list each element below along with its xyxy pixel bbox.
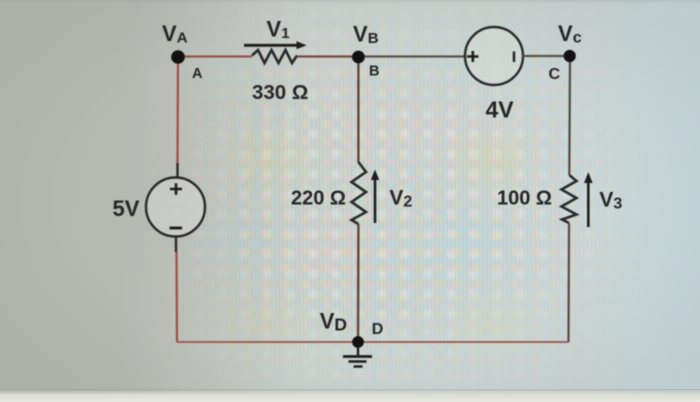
wire: node A to 330ohm left lead bbox=[178, 55, 252, 57]
svg-text:B: B bbox=[369, 64, 379, 80]
svg-text:Vc: Vc bbox=[558, 21, 582, 47]
wire: node B down to 220ohm bbox=[357, 57, 359, 162]
minus sign of 5V source bbox=[170, 227, 183, 230]
voltage source V 5V bbox=[146, 178, 205, 237]
arrow V3 (voltage arrow beside R3) bbox=[584, 172, 593, 227]
svg-text:V1: V1 bbox=[267, 17, 290, 43]
wire: node B to 4V source bbox=[358, 55, 465, 57]
svg-text:V3: V3 bbox=[599, 189, 622, 213]
resistor R1 330ohm bbox=[252, 50, 297, 63]
minus sign of 4V source bbox=[513, 52, 515, 63]
svg-text:A: A bbox=[192, 66, 203, 82]
node A bbox=[171, 50, 185, 64]
plus sign of 5V source bbox=[170, 183, 182, 195]
svg-text:4V: 4V bbox=[486, 97, 515, 123]
svg-text:5V: 5V bbox=[113, 196, 140, 221]
wire: 5V source down to bottom left corner bbox=[175, 252, 178, 342]
voltage source U1 4V bbox=[465, 27, 523, 85]
wire: bottom from node D to left corner bbox=[177, 341, 358, 343]
wire: 330ohm right lead to node B bbox=[297, 55, 358, 57]
svg-text:220 Ω: 220 Ω bbox=[291, 188, 346, 210]
wire: black stub above 5V source bbox=[176, 163, 178, 178]
wire: node C down to 100ohm bbox=[568, 56, 571, 175]
wire: 4V source to node C bbox=[523, 55, 570, 57]
wire: bottom from right corner to node D bbox=[358, 341, 569, 343]
ground bbox=[343, 347, 372, 367]
svg-text:V2: V2 bbox=[389, 187, 412, 211]
resistor R2 220ohm bbox=[352, 162, 367, 224]
node B bbox=[352, 51, 365, 64]
wire: 220ohm down to node D bbox=[357, 224, 360, 342]
svg-text:330 Ω: 330 Ω bbox=[252, 81, 308, 104]
svg-text:VA: VA bbox=[162, 21, 188, 47]
plus sign of 4V source bbox=[467, 51, 479, 62]
wire: node A down to 5V source bbox=[176, 57, 179, 163]
svg-text:D: D bbox=[372, 321, 384, 338]
node C bbox=[564, 50, 576, 62]
arrow V1 (voltage arrow over R1) bbox=[244, 41, 307, 49]
node D bbox=[352, 336, 364, 348]
svg-text:100 Ω: 100 Ω bbox=[497, 188, 552, 210]
wire: black stub below 5V source bbox=[175, 237, 177, 253]
svg-text:VB: VB bbox=[353, 22, 379, 48]
svg-text:C: C bbox=[549, 66, 561, 83]
resistor R3 100ohm bbox=[562, 175, 577, 223]
svg-text:VD: VD bbox=[320, 308, 347, 334]
wire: 100ohm down to bottom right corner bbox=[567, 223, 570, 342]
arrow V2 (voltage arrow beside R2) bbox=[371, 170, 379, 224]
